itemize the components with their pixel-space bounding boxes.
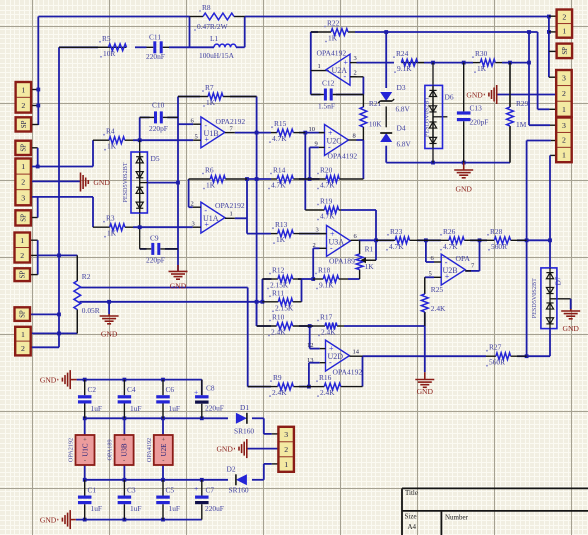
svg-text:GND: GND (216, 444, 233, 453)
op-amp U1B (201, 117, 225, 148)
svg-text:2: 2 (562, 12, 566, 21)
svg-text:SP: SP (562, 47, 569, 55)
svg-text:R15: R15 (274, 119, 287, 128)
wire C9 row (140, 248, 147, 250)
op-amp U3A (327, 225, 351, 256)
connector (15, 233, 31, 263)
svg-text:A4: A4 (408, 523, 417, 531)
wire pin1 row (31, 166, 93, 168)
wire top conn stubs (549, 15, 557, 17)
svg-text:3: 3 (316, 227, 319, 234)
wire top-right drop (537, 32, 539, 109)
resistor R1 (359, 240, 361, 254)
svg-text:R18: R18 (318, 266, 331, 275)
node A conn pins (31, 89, 38, 91)
wire R6/R14 row (247, 178, 271, 180)
wire R4 row (133, 139, 193, 141)
wire R9 row (248, 386, 271, 388)
svg-text:220pF: 220pF (470, 118, 489, 127)
wire kelvin H2 / R11 row (80, 301, 263, 303)
resistor R18 (313, 278, 323, 280)
svg-text:220uF: 220uF (205, 504, 224, 513)
svg-text:-: - (123, 457, 125, 464)
svg-text:U1A: U1A (203, 214, 219, 223)
svg-text:R29: R29 (516, 99, 529, 108)
svg-text:GND: GND (417, 387, 434, 396)
svg-text:C4: C4 (127, 385, 136, 394)
svg-text:GND: GND (562, 324, 579, 333)
svg-text:2: 2 (21, 344, 25, 353)
svg-text:R6: R6 (205, 166, 214, 175)
svg-text:L1: L1 (210, 34, 219, 43)
svg-text:R27: R27 (489, 343, 502, 352)
wire U3A pin3 (320, 233, 327, 235)
wire conn2 SP2 (31, 217, 38, 219)
svg-text:1: 1 (21, 85, 25, 94)
resistor R22 (311, 31, 331, 33)
svg-text:2.4K: 2.4K (272, 388, 287, 397)
svg-text:+: + (83, 437, 87, 444)
svg-text:R22: R22 (327, 19, 340, 28)
svg-text:2: 2 (21, 178, 25, 187)
svg-text:OPA4192: OPA4192 (146, 438, 153, 462)
connector (15, 141, 31, 155)
wire Va vertical (256, 97, 258, 327)
svg-text:R4: R4 (106, 127, 115, 136)
svg-text:U3B: U3B (121, 443, 129, 457)
wire U2C stubs (319, 132, 325, 134)
wire U2B stubs (434, 261, 441, 263)
svg-text:3: 3 (562, 74, 566, 83)
svg-text:U1B: U1B (204, 129, 219, 138)
resistor R29 (509, 63, 511, 107)
zener D3 (380, 92, 392, 101)
svg-text:1: 1 (562, 26, 566, 35)
wire conn2 stubs (549, 76, 556, 78)
capacitor C12 (311, 94, 324, 96)
wire R19 row (341, 209, 376, 211)
svg-text:SP: SP (21, 120, 28, 128)
svg-text:U2E: U2E (160, 444, 168, 457)
connector (557, 44, 573, 59)
diode D1 (236, 413, 247, 424)
op-amp U2D (326, 340, 350, 371)
connector (557, 10, 573, 38)
ground (69, 510, 71, 529)
svg-text:OPA4192: OPA4192 (328, 152, 358, 161)
svg-text:PESD5V0S2BT: PESD5V0S2BT (424, 97, 431, 137)
svg-text:R14: R14 (273, 166, 286, 175)
wire R13 row (247, 233, 271, 235)
svg-text:Number: Number (445, 514, 469, 522)
wire R29 (509, 63, 511, 107)
svg-text:1K: 1K (206, 98, 216, 107)
svg-text:D7: D7 (555, 276, 563, 285)
resistor R9 (248, 386, 278, 388)
ground (100, 315, 119, 317)
svg-text:560R: 560R (491, 242, 507, 251)
resistor R28 (480, 239, 495, 241)
svg-text:1.5nF: 1.5nF (318, 102, 335, 111)
resistor R20 (310, 178, 326, 180)
wire top conn tie (548, 17, 550, 78)
svg-text:+: + (194, 388, 198, 397)
svg-text:SP: SP (20, 310, 27, 318)
wire R16 (362, 356, 364, 386)
svg-text:220pF: 220pF (146, 256, 165, 265)
svg-text:R10: R10 (272, 313, 285, 322)
svg-text:2.4K: 2.4K (431, 304, 446, 313)
svg-text:0.05R: 0.05R (82, 306, 100, 315)
svg-text:10R: 10R (103, 49, 115, 58)
svg-text:2.4K: 2.4K (321, 328, 336, 337)
op-amp U2A (326, 54, 350, 85)
wire R1 wiper (366, 259, 376, 261)
ground (454, 169, 473, 171)
wire conn4 pin2 row (31, 346, 59, 348)
wire mid rail 2 (85, 479, 228, 481)
svg-text:R23: R23 (390, 227, 403, 236)
svg-text:OPA4192: OPA4192 (333, 368, 363, 377)
wire conn pin3 drop (528, 32, 530, 125)
wire U2A stubs (350, 62, 357, 64)
capacitor C3 (123, 480, 125, 496)
svg-text:OPA2192: OPA2192 (68, 438, 75, 462)
svg-text:1: 1 (562, 151, 566, 160)
capacitor C11 (147, 46, 154, 48)
svg-text:R26: R26 (443, 227, 456, 236)
ground (561, 310, 580, 312)
ground (169, 270, 188, 272)
resistor R7 (178, 96, 208, 98)
TVS diode array D7 (541, 268, 557, 329)
svg-text:10: 10 (309, 126, 316, 133)
wire gnd stem (108, 302, 110, 314)
svg-text:10K: 10K (369, 120, 382, 129)
connector (556, 118, 572, 163)
wire U2D stubs (320, 348, 326, 350)
wire U1B stubs (193, 123, 201, 125)
svg-text:1K: 1K (477, 64, 487, 73)
svg-text:PESD5V0S2BT: PESD5V0S2BT (531, 278, 538, 318)
svg-text:1uF: 1uF (130, 504, 142, 513)
wire conn2 SP (31, 147, 38, 149)
svg-text:4.7K: 4.7K (271, 181, 286, 190)
wire (37, 17, 39, 126)
wire C10 row (140, 116, 150, 118)
wire gnd rail mid (386, 162, 510, 164)
svg-text:R5: R5 (102, 34, 111, 43)
svg-text:6.8V: 6.8V (396, 106, 411, 114)
svg-text:D2: D2 (227, 465, 236, 474)
svg-text:C7: C7 (206, 486, 215, 495)
zener D4 (380, 133, 392, 142)
wire U2A pin3 row / R24 row (357, 62, 395, 64)
title block (402, 487, 588, 489)
wire box columns (84, 418, 86, 435)
svg-text:-: - (84, 457, 86, 464)
wire R8/L1 parallel (189, 17, 191, 48)
svg-text:R25: R25 (431, 285, 444, 294)
wire pin6 row (178, 123, 193, 125)
svg-text:GND: GND (40, 375, 57, 384)
svg-text:D3: D3 (397, 83, 406, 92)
wire conn3 pin2 (527, 140, 551, 142)
TVS diode array D6 (425, 85, 443, 148)
svg-text:R24: R24 (396, 49, 409, 58)
wire U3A pin2 (313, 247, 319, 249)
wire U2B pin5 (425, 276, 434, 278)
svg-text:6.8V: 6.8V (397, 141, 412, 149)
svg-text:3: 3 (354, 55, 357, 62)
wire U2A out node (310, 32, 312, 95)
svg-text:R20: R20 (320, 166, 333, 175)
resistor R15 (271, 132, 277, 134)
svg-text:GND: GND (170, 282, 187, 291)
wire R22 row (311, 31, 318, 33)
svg-text:C3: C3 (127, 486, 136, 495)
svg-text:220pF: 220pF (149, 124, 168, 133)
svg-text:SP: SP (20, 271, 27, 279)
svg-text:R11: R11 (272, 288, 284, 297)
svg-text:1K: 1K (276, 235, 286, 244)
connector (15, 327, 31, 356)
svg-text:1uF: 1uF (169, 504, 181, 513)
svg-text:OPA189: OPA189 (107, 439, 114, 460)
wire pin3 row (31, 196, 93, 198)
svg-text:GND: GND (40, 515, 57, 524)
svg-text:1uF: 1uF (130, 404, 142, 413)
svg-text:C13: C13 (470, 104, 483, 113)
wire R10/R17 row (299, 325, 313, 327)
svg-text:U3A: U3A (329, 237, 345, 246)
svg-text:560R: 560R (489, 358, 505, 367)
svg-text:4.7K: 4.7K (320, 181, 335, 190)
resistor R24 (401, 62, 424, 64)
wire conn3 pin1 (550, 154, 556, 156)
wire pin10 row (320, 132, 325, 134)
ground (80, 173, 82, 192)
svg-text:1K: 1K (365, 262, 375, 271)
svg-text:1uF: 1uF (91, 404, 103, 413)
svg-text:3: 3 (284, 430, 288, 439)
capacitor C7 (201, 480, 203, 496)
connector (278, 427, 294, 472)
ground D7 (570, 309, 572, 311)
wire conn stubs bottom right (272, 433, 279, 435)
wire D6 tap (433, 116, 447, 118)
wire zener column (385, 32, 387, 88)
svg-text:C5: C5 (166, 486, 175, 495)
svg-text:1: 1 (562, 105, 566, 114)
svg-text:1K: 1K (206, 181, 216, 190)
svg-text:2: 2 (21, 101, 25, 110)
wire U3A out row (359, 239, 394, 241)
connector (15, 268, 31, 281)
svg-text:GND: GND (101, 330, 118, 339)
resistor R23 (376, 239, 395, 241)
connector (556, 70, 572, 117)
svg-text:OPA4192: OPA4192 (317, 49, 347, 58)
svg-text:R30: R30 (475, 49, 488, 58)
svg-text:1uF: 1uF (169, 404, 181, 413)
svg-text:Title: Title (405, 489, 418, 497)
resistor R8 (190, 16, 204, 18)
svg-text:R7: R7 (205, 83, 214, 92)
svg-text:1: 1 (21, 330, 25, 339)
inductor L1 (214, 44, 220, 47)
resistor R19 (305, 209, 324, 211)
resistor R27 (486, 355, 496, 357)
capacitor C4 (123, 380, 125, 396)
wire U2A pin2 (350, 76, 363, 78)
wire D5 column (139, 140, 141, 249)
svg-text:1M: 1M (516, 120, 527, 129)
capacitor C8 (201, 380, 203, 396)
wire gnd vertical (177, 97, 179, 272)
svg-text:R17: R17 (320, 313, 333, 322)
svg-text:2.15K: 2.15K (275, 303, 294, 312)
svg-text:GND: GND (455, 185, 472, 194)
svg-text:D4: D4 (397, 124, 406, 133)
svg-text:4.7K: 4.7K (320, 212, 335, 221)
svg-text:C8: C8 (206, 384, 215, 393)
svg-text:2.4K: 2.4K (271, 328, 286, 337)
power part U1C (76, 435, 95, 465)
wire D5 mid tap (147, 182, 178, 184)
capacitor C10 (140, 116, 154, 118)
wire conn4 SP (31, 313, 59, 315)
wire C13 stems (463, 63, 465, 112)
resistor R6 (189, 178, 211, 180)
svg-text:C1: C1 (88, 486, 97, 495)
connector (16, 117, 32, 131)
wire top rail (38, 16, 189, 18)
svg-text:5: 5 (195, 134, 198, 141)
wire U2D out row (363, 355, 487, 357)
svg-text:4.7K: 4.7K (272, 134, 287, 143)
resistor R13 (271, 233, 278, 235)
svg-text:D6: D6 (445, 93, 454, 102)
svg-text:SR160: SR160 (234, 427, 254, 436)
wire conn3 pins (31, 239, 38, 241)
wire R3 row (133, 226, 193, 228)
wire R12 verticals (261, 279, 263, 302)
connector (15, 159, 31, 206)
wire U3A stubs (320, 233, 327, 235)
svg-text:9.1K: 9.1K (319, 281, 334, 290)
svg-text:R21: R21 (369, 99, 382, 108)
svg-text:12: 12 (307, 342, 314, 349)
ground (496, 85, 498, 104)
svg-text:2: 2 (20, 251, 24, 260)
svg-text:4.7K: 4.7K (443, 242, 458, 251)
svg-text:R3: R3 (106, 214, 115, 223)
wire R20 right (362, 77, 364, 95)
capacitor C1 (84, 480, 86, 496)
svg-text:R9: R9 (273, 373, 282, 382)
svg-text:1: 1 (20, 236, 24, 245)
op-amp U2B (441, 254, 465, 285)
ground below D6 (463, 163, 465, 170)
wire U2C out (357, 139, 364, 141)
svg-text:SP: SP (21, 214, 28, 222)
svg-text:2: 2 (191, 201, 194, 208)
resistor R12 (262, 278, 278, 280)
svg-text:C11: C11 (149, 33, 161, 42)
wire R5 row (59, 46, 98, 48)
svg-text:13: 13 (307, 357, 314, 364)
wire D7 bottom (549, 329, 551, 357)
wire conn4 pin1 row (31, 332, 77, 334)
wire R6 left (188, 179, 190, 207)
svg-text:1: 1 (318, 63, 321, 70)
svg-text:+: + (122, 437, 126, 444)
wire U1B out row (235, 132, 271, 134)
resistor R10 (257, 325, 277, 327)
svg-text:SR160: SR160 (229, 486, 249, 495)
connector (15, 307, 31, 321)
resistor R17 (310, 325, 325, 327)
svg-text:9: 9 (315, 141, 318, 148)
wire pin2-R2 row (38, 254, 78, 256)
svg-text:+: + (194, 484, 198, 493)
resistor R25 (424, 277, 426, 294)
ground (69, 370, 71, 389)
svg-text:2: 2 (313, 242, 316, 249)
connector (16, 82, 32, 113)
wire pin9 row (310, 146, 319, 148)
resistor R5 (59, 46, 109, 48)
resistor R16 (309, 386, 324, 388)
svg-text:1uF: 1uF (91, 504, 103, 513)
svg-text:100uH/15A: 100uH/15A (199, 51, 235, 60)
svg-text:R2: R2 (82, 272, 91, 281)
svg-text:1K: 1K (107, 229, 117, 238)
svg-text:8: 8 (353, 133, 356, 140)
svg-text:R19: R19 (320, 197, 333, 206)
op-amp U1A (201, 202, 225, 233)
svg-text:R12: R12 (272, 266, 285, 275)
resistor R2 (76, 255, 78, 280)
wire U1A out (235, 217, 247, 219)
svg-text:GND: GND (466, 90, 483, 99)
wire left bus (58, 47, 60, 347)
svg-text:2: 2 (284, 445, 288, 454)
svg-text:U2D: U2D (328, 352, 344, 361)
svg-text:9.1K: 9.1K (397, 64, 412, 73)
resistor R11 (262, 301, 278, 303)
svg-text:+: + (161, 437, 165, 444)
svg-text:1: 1 (230, 211, 233, 218)
svg-text:C10: C10 (152, 101, 165, 110)
capacitor C5 (162, 480, 164, 496)
svg-text:U1C: U1C (82, 443, 90, 457)
svg-text:5: 5 (429, 271, 432, 278)
svg-text:2: 2 (562, 136, 566, 145)
resistor R4 (93, 139, 109, 141)
op-amp U2C (325, 125, 349, 156)
svg-text:2: 2 (562, 89, 566, 98)
svg-text:U2B: U2B (443, 266, 458, 275)
ground below R25 (424, 372, 426, 379)
capacitor C2 (84, 380, 86, 396)
wire R1 wiper arrow (366, 259, 376, 261)
wire R7 row (178, 96, 200, 98)
svg-text:3: 3 (562, 121, 566, 130)
wire D5 tap stub (140, 182, 148, 184)
wire pin2 gnd row (31, 180, 81, 182)
